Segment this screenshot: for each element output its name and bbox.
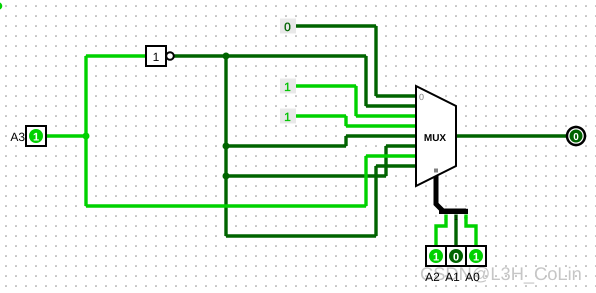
svg-text:A1: A1 bbox=[445, 270, 460, 284]
svg-text:0: 0 bbox=[419, 92, 424, 102]
svg-text:1: 1 bbox=[473, 252, 479, 264]
svg-text:1: 1 bbox=[433, 252, 439, 264]
svg-text:1: 1 bbox=[153, 50, 160, 64]
svg-text:A0: A0 bbox=[465, 270, 480, 284]
svg-text:1: 1 bbox=[284, 110, 291, 124]
svg-text:MUX: MUX bbox=[424, 133, 447, 144]
svg-text:1: 1 bbox=[284, 80, 291, 94]
svg-text:0: 0 bbox=[453, 252, 459, 264]
svg-text:A3: A3 bbox=[10, 130, 25, 144]
svg-text:1: 1 bbox=[33, 132, 39, 144]
svg-text:1: 1 bbox=[454, 215, 458, 222]
svg-text:A2: A2 bbox=[425, 270, 440, 284]
svg-text:0: 0 bbox=[284, 20, 291, 34]
svg-text:0: 0 bbox=[573, 132, 579, 143]
